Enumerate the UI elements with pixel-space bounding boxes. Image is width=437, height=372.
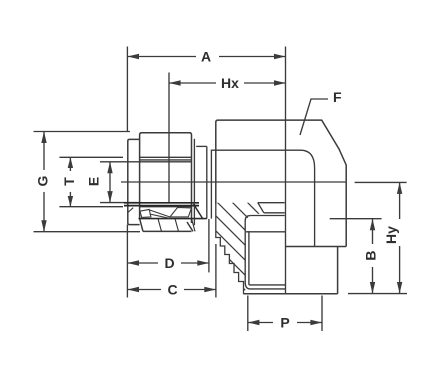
svg-text:B: B: [363, 250, 379, 260]
port thread inner line: [248, 231, 250, 285]
leader line F: [300, 99, 328, 135]
nut hex flat line bottom: [140, 206, 192, 208]
nut outline: [140, 133, 193, 232]
bottom extension line shared B and Hy: [348, 293, 407, 295]
svg-text:P: P: [280, 314, 289, 330]
dimension line D: [127, 262, 158, 264]
front ferrule cone slant 1: [150, 210, 170, 217]
left extension line lower (shared D and C): [126, 225, 128, 298]
dimension line C: [127, 289, 161, 291]
svg-text:F: F: [333, 89, 342, 105]
dimension line Hx: [169, 82, 216, 84]
washer bottom long line: [139, 218, 207, 220]
nut hex flat line top: [140, 156, 192, 158]
body step shoulder: [286, 246, 347, 248]
back ferrule quad: [140, 209, 151, 217]
front ferrule cone slant 2: [150, 214, 170, 218]
extension line left for dim A: [126, 47, 128, 132]
extension line right for dim C: [215, 244, 217, 298]
extension line bottom for dim E: [100, 202, 140, 204]
seat mouth line: [258, 202, 285, 204]
extension line left for dim Hx: [168, 73, 170, 204]
port bottom face: [243, 293, 337, 295]
svg-text:Hy: Hy: [383, 226, 399, 244]
axis centerline horizontal: [121, 181, 346, 183]
svg-text:A: A: [201, 49, 211, 65]
thread band line: [124, 205, 199, 207]
body inner top line with fillet arc: [211, 150, 314, 246]
seat cone edge: [258, 203, 264, 213]
dimension line E: [109, 162, 111, 203]
dimension line B: [372, 219, 374, 244]
washer top edge: [196, 145, 207, 147]
extension line right for dim D: [208, 219, 210, 272]
svg-text:D: D: [164, 255, 174, 271]
dimension line G: [43, 132, 45, 171]
svg-text:E: E: [86, 177, 102, 186]
nut inner line top: [140, 159, 192, 161]
dimension line T: [69, 157, 71, 171]
extension line right / port centerline: [285, 47, 287, 294]
elbow body outline: [216, 120, 346, 246]
seat ring line 3: [246, 231, 285, 233]
svg-text:T: T: [61, 177, 77, 186]
dimension line P: [248, 322, 273, 324]
tube bore line bottom thick: [124, 202, 199, 204]
extension line top for dim B: [330, 218, 382, 220]
extension line top for dim E / tube line: [100, 161, 192, 163]
section hatch web lines: [145, 190, 375, 315]
body nose line: [210, 150, 212, 219]
nut thread tooth quad upper: [170, 207, 191, 217]
seat ring line 2: [250, 215, 284, 217]
port thread relief ring: [249, 284, 286, 286]
extension line top for dim Hy: [355, 181, 407, 183]
nut rear parallel line: [193, 139, 195, 225]
port thread staircase left: [216, 204, 244, 294]
svg-text:G: G: [35, 175, 51, 186]
dimension line A: [127, 56, 196, 58]
svg-text:C: C: [167, 281, 177, 297]
lower teeth band bottom quad edges: [158, 219, 195, 232]
nut right section slant: [194, 204, 203, 218]
extension line bottom for dim T: [59, 206, 123, 208]
extension line bottom for dim G: [34, 231, 141, 233]
tube stub section chamfer stroke: [127, 208, 133, 213]
extension line left for dim P: [247, 296, 249, 332]
port bore left line: [245, 216, 285, 289]
extension line top for dim T: [59, 156, 123, 158]
extension line right for dim P: [321, 296, 323, 332]
svg-text:Hx: Hx: [221, 75, 239, 91]
extension line top for dim G: [34, 131, 131, 133]
tube stub: [128, 139, 140, 224]
dimension line Hy: [399, 182, 401, 219]
seat ring line 1: [264, 212, 285, 214]
port right edge: [337, 247, 339, 294]
washer right edge: [206, 146, 208, 218]
